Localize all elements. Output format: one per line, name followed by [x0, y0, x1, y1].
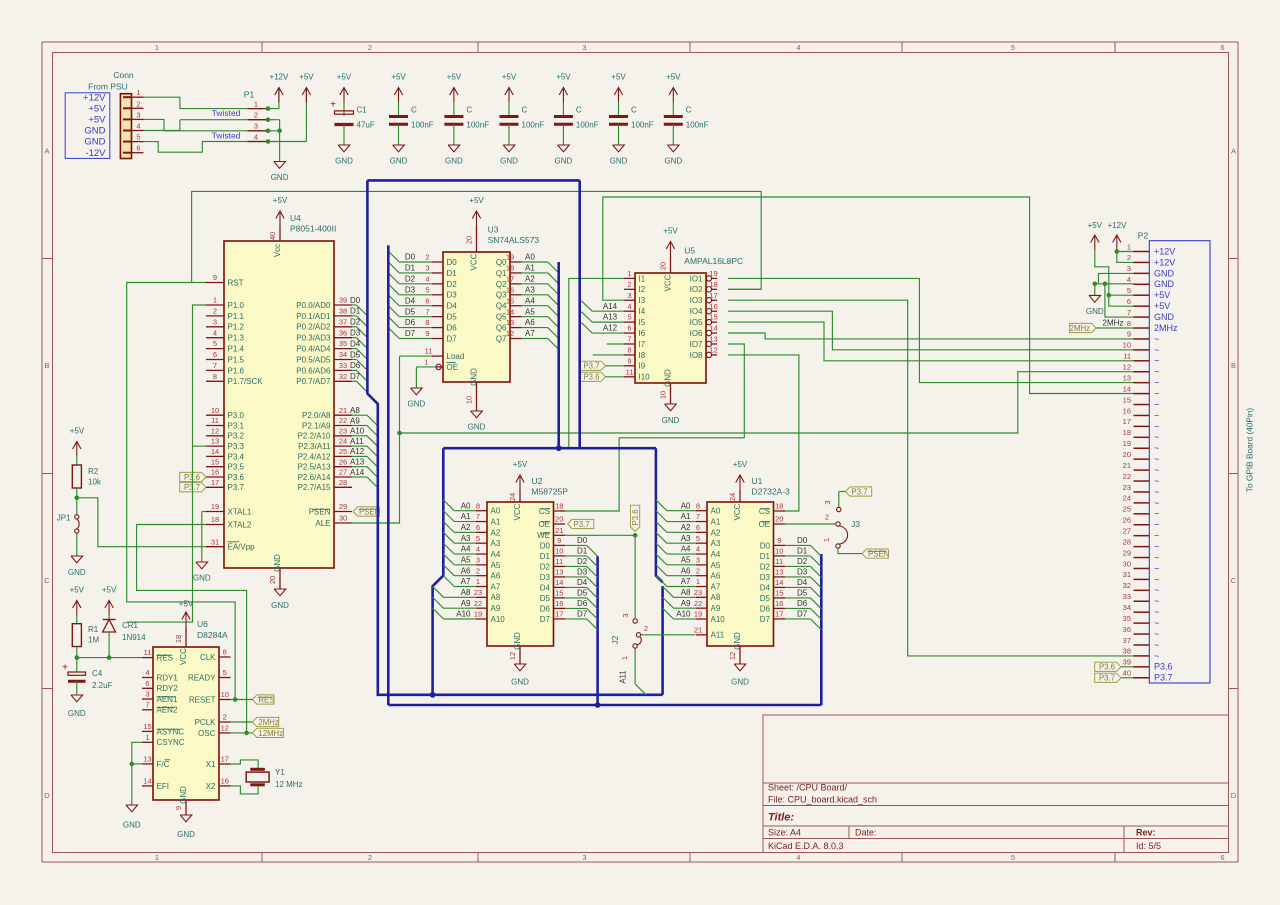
ic U4 pin ALE [334, 522, 352, 524]
svg-text:R1: R1 [88, 625, 99, 634]
svg-text:IO7: IO7 [690, 340, 703, 349]
svg-text:8: 8 [476, 501, 480, 510]
svg-text:GND: GND [271, 601, 289, 610]
svg-text:12: 12 [728, 652, 737, 660]
svg-text:2MHz: 2MHz [258, 718, 278, 727]
svg-text:D2: D2 [797, 557, 808, 566]
bus U3 A outputs vertical [557, 262, 560, 448]
ic U5 input pins [624, 277, 635, 279]
svg-text:A3: A3 [711, 539, 721, 548]
svg-text:A6: A6 [525, 318, 535, 327]
svg-text:4: 4 [476, 545, 480, 554]
svg-text:EFI: EFI [157, 782, 169, 791]
svg-text:D: D [44, 791, 50, 800]
svg-text:29: 29 [339, 502, 347, 511]
svg-text:12: 12 [508, 652, 517, 660]
wire U4 ALE to U3 Load [352, 356, 400, 523]
svg-text:GND: GND [1154, 268, 1175, 278]
svg-text:I6: I6 [639, 329, 646, 338]
svg-text:A6: A6 [681, 566, 691, 575]
svg-text:I2: I2 [639, 285, 646, 294]
svg-text:35: 35 [339, 339, 347, 348]
wire U4 XTAL2 to OSC [137, 525, 247, 733]
svg-text:D1: D1 [760, 552, 771, 561]
svg-text:C: C [44, 576, 50, 585]
svg-text:+: + [62, 663, 68, 674]
wire J2 pin1 bus entry A11 [634, 648, 636, 684]
svg-text:Title:: Title: [768, 812, 794, 824]
svg-text:1: 1 [254, 99, 258, 108]
svg-text:Date:: Date: [855, 828, 877, 838]
svg-text:READY: READY [188, 673, 216, 682]
svg-text:GND: GND [68, 568, 86, 577]
svg-text:19: 19 [474, 610, 482, 619]
svg-text:24: 24 [339, 437, 347, 446]
svg-text:IO8: IO8 [690, 351, 703, 360]
svg-text:1: 1 [155, 43, 159, 52]
svg-text:A0: A0 [491, 507, 501, 516]
svg-text:+5V: +5V [337, 73, 352, 82]
svg-text:14: 14 [709, 324, 717, 333]
svg-text:A6: A6 [711, 572, 721, 581]
svg-text:36: 36 [339, 328, 347, 337]
ic U5 GND pin 10 [670, 383, 672, 404]
svg-text:D5: D5 [577, 589, 588, 598]
svg-text:4: 4 [425, 274, 429, 283]
svg-text:P3.7: P3.7 [1154, 673, 1173, 683]
svg-text:AEN2: AEN2 [157, 706, 178, 715]
svg-text:D4: D4 [577, 578, 588, 587]
svg-text:A8: A8 [491, 593, 501, 602]
svg-text:OE: OE [447, 363, 459, 372]
svg-text:100nF: 100nF [522, 121, 545, 130]
svg-text:21: 21 [339, 406, 347, 415]
svg-text:16: 16 [221, 777, 229, 786]
svg-text:I8: I8 [639, 351, 646, 360]
svg-text:~: ~ [1154, 607, 1159, 617]
svg-text:33: 33 [1123, 592, 1131, 601]
svg-text:CS: CS [539, 507, 550, 516]
svg-text:17: 17 [555, 610, 563, 619]
wire J2 pin2 to U1 A11 [641, 634, 696, 636]
bus entries U2 address [443, 500, 454, 511]
svg-text:P1.3: P1.3 [228, 334, 245, 343]
svg-text:3: 3 [823, 500, 832, 504]
svg-text:CLK: CLK [200, 653, 216, 662]
label P3.6 at U4 [180, 472, 206, 481]
svg-text:D7: D7 [797, 610, 808, 619]
svg-text:D1: D1 [447, 269, 458, 278]
svg-text:A9: A9 [711, 604, 721, 613]
svg-text:37: 37 [339, 317, 347, 326]
svg-text:~: ~ [1154, 618, 1159, 628]
svg-text:WE: WE [537, 531, 550, 540]
svg-text:~: ~ [1154, 356, 1159, 366]
svg-text:4: 4 [796, 43, 800, 52]
svg-text:21: 21 [694, 625, 702, 634]
svg-text:GND: GND [664, 369, 673, 387]
svg-text:~: ~ [1154, 378, 1159, 388]
svg-text:A: A [44, 147, 49, 156]
svg-text:5: 5 [1011, 853, 1015, 862]
svg-text:3: 3 [582, 853, 586, 862]
svg-text:Rev:: Rev: [1136, 828, 1156, 838]
svg-text:12: 12 [506, 329, 514, 338]
svg-text:14: 14 [775, 578, 783, 587]
svg-text:7: 7 [145, 700, 149, 709]
wire U5 I1 from CLK net [569, 278, 624, 448]
svg-text:11: 11 [144, 648, 152, 657]
svg-text:13: 13 [506, 318, 514, 327]
ic U1 CS pin [774, 510, 786, 512]
svg-text:CS: CS [759, 507, 770, 516]
ic U3 SN74ALS573 body [443, 252, 510, 382]
svg-text:8: 8 [1127, 319, 1131, 328]
svg-text:P1: P1 [244, 90, 255, 100]
svg-text:D4: D4 [350, 339, 361, 348]
svg-text:D4: D4 [540, 583, 551, 592]
svg-text:C4: C4 [92, 669, 103, 678]
svg-text:3: 3 [425, 264, 429, 273]
svg-text:PSEN: PSEN [868, 550, 889, 559]
svg-text:ASYNC: ASYNC [157, 727, 185, 736]
svg-text:9: 9 [557, 536, 561, 545]
label 12MHz at U6 [252, 728, 283, 737]
svg-text:16: 16 [775, 599, 783, 608]
svg-text:+5V: +5V [1154, 290, 1170, 300]
svg-text:3: 3 [145, 690, 149, 699]
svg-text:A12: A12 [350, 447, 365, 456]
svg-text:VCC: VCC [513, 503, 522, 520]
svg-text:VCC: VCC [470, 253, 479, 270]
svg-text:GND: GND [1086, 307, 1104, 316]
bus data bus left of U3 [367, 180, 662, 694]
svg-text:+12V: +12V [1154, 246, 1175, 256]
svg-text:RDY2: RDY2 [157, 684, 179, 693]
svg-text:31: 31 [1123, 570, 1131, 579]
wire U4 RST to reset net [127, 283, 235, 700]
svg-text:A4: A4 [525, 296, 535, 305]
svg-text:A1: A1 [525, 264, 535, 273]
wire U5 IO7 to U2 CS [565, 344, 745, 511]
svg-text:2: 2 [254, 111, 258, 120]
svg-text:AMPAL16L8PC: AMPAL16L8PC [684, 256, 743, 266]
svg-text:100nF: 100nF [411, 121, 434, 130]
svg-text:A13: A13 [603, 313, 618, 322]
svg-text:I4: I4 [639, 307, 646, 316]
svg-text:D2: D2 [760, 562, 771, 571]
svg-text:A0: A0 [711, 507, 721, 516]
label P3.7 at U2 OE [568, 519, 594, 528]
svg-text:3: 3 [213, 317, 217, 326]
svg-text:16: 16 [709, 302, 717, 311]
bus entries U5 A12-A14 [592, 310, 624, 312]
svg-text:11: 11 [626, 367, 634, 376]
svg-text:17: 17 [221, 755, 229, 764]
svg-text:D3: D3 [577, 568, 588, 577]
svg-text:A8: A8 [711, 593, 721, 602]
wire +5V to P2 pins 5 6 [1095, 250, 1134, 306]
svg-text:27: 27 [1123, 526, 1131, 535]
wire U6 CSYNC to F/C to ground [132, 742, 142, 805]
ic U4 pin PSEN [334, 511, 352, 513]
svg-text:P3.7: P3.7 [851, 487, 867, 496]
svg-text:7: 7 [213, 361, 217, 370]
resistor R2 10k [72, 465, 81, 488]
svg-text:~: ~ [1154, 629, 1159, 639]
svg-text:A6: A6 [461, 566, 471, 575]
svg-text:13: 13 [1123, 373, 1131, 382]
svg-text:7: 7 [425, 307, 429, 316]
svg-text:OE: OE [758, 520, 770, 529]
svg-text:1: 1 [1127, 242, 1131, 251]
svg-text:20: 20 [465, 236, 474, 244]
ic U4 pins P2.0-P2.7 right [334, 414, 352, 416]
svg-text:From PSU: From PSU [88, 82, 128, 92]
svg-text:+5V: +5V [102, 586, 117, 595]
svg-text:A5: A5 [525, 307, 535, 316]
svg-text:A7: A7 [711, 582, 721, 591]
svg-text:J3: J3 [851, 519, 860, 529]
svg-text:A1: A1 [461, 512, 471, 521]
svg-text:6: 6 [136, 144, 140, 153]
svg-text:D7: D7 [447, 334, 458, 343]
label P3.7 at U4 [180, 483, 206, 492]
svg-text:D6: D6 [447, 323, 458, 332]
svg-text:13: 13 [143, 755, 151, 764]
svg-text:100nF: 100nF [576, 121, 599, 130]
svg-text:GND: GND [1154, 312, 1175, 322]
svg-text:20: 20 [268, 576, 277, 584]
svg-text:P2.2/A10: P2.2/A10 [298, 432, 331, 441]
svg-text:17: 17 [506, 274, 514, 283]
wire U1 OE to J3 pin2 [784, 523, 836, 525]
svg-text:22: 22 [339, 416, 347, 425]
ic U4 pin EA/Vpp [206, 546, 224, 548]
svg-text:+5V: +5V [273, 196, 288, 205]
svg-text:R2: R2 [88, 467, 99, 476]
svg-text:KiCad E.D.A. 8.0.3: KiCad E.D.A. 8.0.3 [768, 841, 844, 851]
svg-text:21: 21 [1123, 461, 1131, 470]
svg-text:47uF: 47uF [357, 121, 375, 130]
svg-text:3: 3 [254, 122, 258, 131]
svg-text:A4: A4 [491, 550, 501, 559]
svg-text:IO1: IO1 [690, 274, 703, 283]
svg-text:X2: X2 [206, 782, 216, 791]
svg-text:GND: GND [177, 830, 195, 839]
svg-text:31: 31 [211, 537, 219, 546]
svg-text:P3.1: P3.1 [228, 421, 245, 430]
svg-text:23: 23 [1123, 483, 1131, 492]
svg-text:4: 4 [254, 132, 258, 141]
svg-text:Vcc: Vcc [273, 244, 282, 257]
svg-text:P1.1: P1.1 [228, 312, 245, 321]
svg-text:A2: A2 [461, 523, 471, 532]
svg-text:D1: D1 [540, 552, 551, 561]
svg-text:D3: D3 [760, 573, 771, 582]
svg-text:P2.0/A8: P2.0/A8 [302, 411, 331, 420]
svg-text:14: 14 [555, 578, 563, 587]
svg-text:C: C [576, 106, 582, 115]
label RES [252, 695, 274, 704]
svg-text:C: C [522, 106, 528, 115]
svg-text:3: 3 [621, 613, 630, 617]
svg-text:ALE: ALE [315, 519, 330, 528]
svg-text:A10: A10 [456, 610, 471, 619]
svg-text:D0: D0 [760, 541, 771, 550]
svg-text:U3: U3 [488, 225, 499, 235]
svg-text:5: 5 [1011, 43, 1015, 52]
svg-text:RESET: RESET [189, 695, 216, 704]
svg-text:+5V: +5V [179, 600, 194, 609]
label PSEN at U4 pin29 [353, 507, 379, 516]
svg-text:~: ~ [1154, 410, 1159, 420]
svg-text:J2: J2 [610, 635, 620, 644]
svg-text:+12V: +12V [269, 73, 289, 82]
svg-text:3: 3 [582, 43, 586, 52]
svg-text:22: 22 [1123, 472, 1131, 481]
svg-text:VCC: VCC [733, 503, 742, 520]
svg-text:GND: GND [470, 368, 479, 386]
svg-text:+5V: +5V [663, 227, 678, 236]
svg-text:GND: GND [84, 126, 105, 137]
svg-text:D8284A: D8284A [197, 630, 228, 640]
svg-text:A13: A13 [350, 458, 365, 467]
svg-text:3: 3 [136, 110, 140, 119]
svg-text:A11: A11 [350, 437, 364, 446]
svg-text:8: 8 [213, 372, 217, 381]
svg-text:C: C [631, 106, 637, 115]
svg-text:GND: GND [555, 157, 573, 166]
svg-text:RES: RES [157, 654, 173, 663]
ic U6 right pins [219, 656, 231, 658]
svg-text:GND: GND [271, 173, 289, 182]
svg-text:RES: RES [258, 695, 274, 704]
svg-text:EA/Vpp: EA/Vpp [228, 543, 256, 552]
svg-text:4: 4 [627, 302, 631, 311]
svg-text:+5V: +5V [88, 104, 106, 115]
svg-text:OSC: OSC [198, 729, 216, 738]
svg-text:P2: P2 [1138, 231, 1149, 241]
svg-text:M58725P: M58725P [532, 487, 569, 497]
svg-text:5: 5 [696, 534, 700, 543]
svg-text:A10: A10 [711, 615, 726, 624]
svg-text:30: 30 [339, 514, 347, 523]
svg-text:6: 6 [1220, 853, 1224, 862]
ic U2 M58725P body [487, 502, 554, 646]
bus entries U4 P0 data [352, 304, 357, 306]
svg-text:I3: I3 [639, 296, 646, 305]
wire U2 WE to J2 [565, 534, 636, 536]
svg-text:D7: D7 [405, 329, 416, 338]
svg-text:JP1: JP1 [57, 514, 71, 523]
svg-text:10: 10 [211, 406, 219, 415]
wire U5 IO2 [728, 288, 761, 290]
power +5V at P1 [305, 88, 307, 142]
bus U3 D entries vertical [387, 245, 390, 705]
svg-text:4: 4 [136, 122, 140, 131]
svg-text:2: 2 [425, 253, 429, 262]
svg-text:12MHz: 12MHz [258, 729, 283, 738]
svg-text:100nF: 100nF [466, 121, 489, 130]
svg-text:D2: D2 [540, 562, 551, 571]
svg-text:C: C [411, 106, 417, 115]
wire GND to P2 pins 3 4 7 [1099, 273, 1134, 283]
svg-text:GND: GND [123, 820, 141, 829]
svg-text:38: 38 [1123, 647, 1131, 656]
svg-text:8: 8 [425, 318, 429, 327]
svg-text:A4: A4 [711, 550, 721, 559]
svg-text:A14: A14 [350, 468, 365, 477]
svg-text:A10: A10 [350, 427, 365, 436]
svg-text:A10: A10 [491, 615, 506, 624]
svg-text:D4: D4 [405, 296, 416, 305]
svg-text:~: ~ [1154, 531, 1159, 541]
ic U2 WE pin [554, 534, 566, 536]
svg-text:+: + [330, 100, 336, 111]
svg-text:A2: A2 [681, 523, 691, 532]
svg-text:P0.2/AD2: P0.2/AD2 [296, 323, 331, 332]
svg-text:8: 8 [627, 346, 631, 355]
svg-text:A3: A3 [491, 539, 501, 548]
svg-text:23: 23 [474, 588, 482, 597]
svg-text:C1: C1 [357, 106, 368, 115]
svg-text:P1.5: P1.5 [228, 355, 245, 364]
svg-text:40: 40 [1123, 669, 1131, 678]
svg-text:A9: A9 [491, 604, 501, 613]
svg-text:2: 2 [368, 43, 372, 52]
svg-text:5: 5 [213, 339, 217, 348]
svg-text:D7: D7 [350, 372, 361, 381]
svg-text:+5V: +5V [502, 73, 517, 82]
svg-text:PSEN: PSEN [309, 507, 331, 516]
svg-text:12: 12 [709, 346, 717, 355]
svg-text:~: ~ [1154, 399, 1159, 409]
svg-text:13: 13 [775, 568, 783, 577]
svg-text:A8: A8 [350, 406, 360, 415]
svg-text:P0.6/AD6: P0.6/AD6 [296, 366, 331, 375]
svg-text:-12V: -12V [85, 148, 106, 159]
svg-text:D1: D1 [797, 547, 808, 556]
bus U2 D vertical [596, 556, 599, 705]
svg-text:~: ~ [1154, 596, 1159, 606]
svg-text:~: ~ [1154, 487, 1159, 497]
svg-text:28: 28 [1123, 537, 1131, 546]
ic U4 pins P0.0-P0.7 right [334, 304, 352, 306]
svg-text:19: 19 [709, 269, 717, 278]
svg-text:D7: D7 [760, 615, 771, 624]
svg-text:30: 30 [1123, 559, 1131, 568]
svg-text:GND: GND [445, 157, 463, 166]
svg-text:P3.3: P3.3 [228, 442, 245, 451]
svg-text:U1: U1 [752, 476, 763, 486]
svg-text:C: C [686, 106, 692, 115]
svg-text:17: 17 [775, 610, 783, 619]
svg-text:VCC: VCC [664, 274, 673, 291]
svg-text:20: 20 [555, 515, 563, 524]
ic U1 data pins [774, 544, 786, 546]
svg-text:2: 2 [223, 713, 227, 722]
svg-text:D2: D2 [405, 274, 416, 283]
svg-text:1: 1 [155, 853, 159, 862]
svg-text:7: 7 [476, 512, 480, 521]
svg-text:1: 1 [145, 733, 149, 742]
svg-text:34: 34 [1123, 603, 1131, 612]
svg-text:~: ~ [1154, 443, 1159, 453]
svg-text:D6: D6 [405, 318, 416, 327]
svg-text:XTAL1: XTAL1 [228, 507, 252, 516]
svg-text:13: 13 [555, 568, 563, 577]
